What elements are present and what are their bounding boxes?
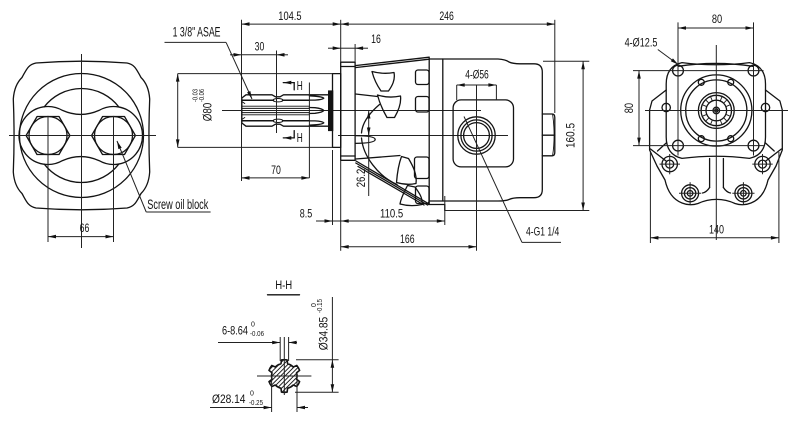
dim O28.14 [271,376,273,412]
dim 16 [341,47,355,49]
svg-text:80: 80 [622,103,636,113]
foot bottom [428,205,445,211]
dim 246 [341,23,555,25]
pin groove ellipses [273,99,283,102]
svg-text:26.2: 26.2 [354,169,368,188]
H-H cut line [308,83,310,179]
dim 6-8.64 [279,337,281,361]
dim 104.5 [242,23,341,25]
bolt hole BR [748,140,759,151]
plug centerline right [113,116,115,242]
inner bore arc top [44,89,118,107]
svg-text:Ø28.14: Ø28.14 [212,392,246,406]
dim 4-O56 [457,84,497,86]
hub circles [681,75,752,146]
port centerline [338,135,508,137]
center rib [709,159,711,188]
mounting flange plate [341,62,355,160]
svg-text:-0.15: -0.15 [317,299,324,313]
svg-text:-0.06: -0.06 [199,89,206,102]
spline runout wedge top [309,96,323,100]
svg-text:0: 0 [251,322,255,329]
svg-text:0: 0 [250,391,254,398]
collar ring [328,90,333,131]
dim 140 [650,237,779,239]
middle view: pump side elevation [165,9,590,251]
H mark top [283,82,294,84]
dim 110.5 [341,220,445,222]
svg-text:Screw oil block: Screw oil block [147,197,208,212]
peanut boss outline [19,107,143,165]
bolt head rect 2 [416,97,430,113]
casting outer contour [13,61,149,210]
tip notch marks [242,102,245,104]
svg-text:4-Ø56: 4-Ø56 [465,68,489,82]
svg-text:246: 246 [439,9,454,23]
mid bolts [662,156,677,171]
rib goblet 4 [400,186,422,206]
hex plug right [92,117,136,155]
svg-text:Ø80: Ø80 [201,103,215,122]
spline inner lines [242,105,309,107]
shaft centerline [222,110,481,112]
svg-text:H: H [297,130,303,145]
dim 166 [341,246,477,248]
bolt head rect 4 [416,186,430,204]
bolt head rect 1 [416,70,430,85]
leader 4-G1 1/4 [464,117,522,243]
spline runout wedge mid [309,108,323,114]
pilot boss [333,74,341,148]
centerlines [645,110,788,112]
bearing rollers [702,96,731,125]
svg-text:160.5: 160.5 [564,123,578,148]
flange side circles [662,103,670,111]
svg-text:4-G1 1/4: 4-G1 1/4 [526,225,559,239]
bolt hole BL [673,140,684,151]
dim 70 [242,177,310,179]
top edge behind flange [678,63,753,66]
section H-H [210,278,339,412]
dim 80 left [638,71,640,146]
plug centerline left [47,116,49,242]
hex plug left [26,117,70,155]
spline tooth line bottom [243,120,310,122]
svg-text:4-Ø12.5: 4-Ø12.5 [625,35,658,49]
port boss plate [453,100,513,167]
svg-text:30: 30 [255,40,265,54]
cover bottom foot edge [356,161,429,204]
svg-text:70: 70 [271,163,281,177]
corner chamfer lines [651,149,667,161]
rear plug boss [542,114,555,156]
ext lines top dims [241,20,243,181]
plug circle right [95,117,133,155]
inner bore arc bottom [44,164,118,182]
rib goblet 1 [372,72,394,92]
dim 160.5 [543,60,589,62]
dim O80 [178,73,333,75]
svg-text:80: 80 [712,12,722,26]
svg-text:104.5: 104.5 [278,9,301,23]
svg-text:Ø34.85: Ø34.85 [317,317,331,351]
shaft outline [242,95,329,126]
svg-text:8.5: 8.5 [300,206,313,220]
leader screw oil block [117,141,146,212]
dim 30 [242,54,277,56]
left view: pump end with screw oil blocks [9,54,211,248]
svg-text:-0.06: -0.06 [250,331,264,338]
svg-text:6-8.64: 6-8.64 [222,324,248,338]
right view: flange end [622,12,788,243]
port circles [458,117,495,154]
cover top edge [355,57,429,65]
section centerlines [257,375,311,377]
svg-text:16: 16 [371,32,381,46]
svg-text:66: 66 [80,221,90,235]
waist sweep curves [362,105,380,134]
svg-text:110.5: 110.5 [380,206,403,220]
port vertical centerline [476,85,478,251]
vertical centerline [81,54,83,248]
H mark bottom [283,137,294,139]
spline tooth line top [243,99,310,101]
spline section outline [269,360,300,393]
suction passage ellipse [355,136,375,144]
spline runout wedge bottom [309,121,323,125]
flange plate [666,63,765,159]
dim O34.85 [296,359,339,361]
svg-text:1 3/8" ASAE: 1 3/8" ASAE [173,25,221,40]
casting silhouette [650,90,783,205]
bolt hole TR [748,65,759,76]
svg-text:140: 140 [709,222,724,236]
body joint lines [428,58,430,204]
svg-text:166: 166 [400,232,415,246]
svg-text:H-H: H-H [275,278,292,292]
rib goblet 3 [397,157,417,185]
foot bolts [682,185,699,202]
outer bore circle [20,74,144,198]
horizontal centerline [9,135,156,137]
dim 80 top [678,27,754,29]
dim 26.2 [368,111,370,197]
dim 66 [48,236,114,238]
rib goblet 2 [378,95,401,118]
svg-text:-0.25: -0.25 [249,400,263,407]
plug circle left [29,117,67,155]
bolt head rect 3 [415,157,430,179]
bolt hole TL [673,65,684,76]
hub small screws [698,79,704,85]
body and rear cover outline [429,59,542,201]
svg-text:H: H [297,78,303,93]
